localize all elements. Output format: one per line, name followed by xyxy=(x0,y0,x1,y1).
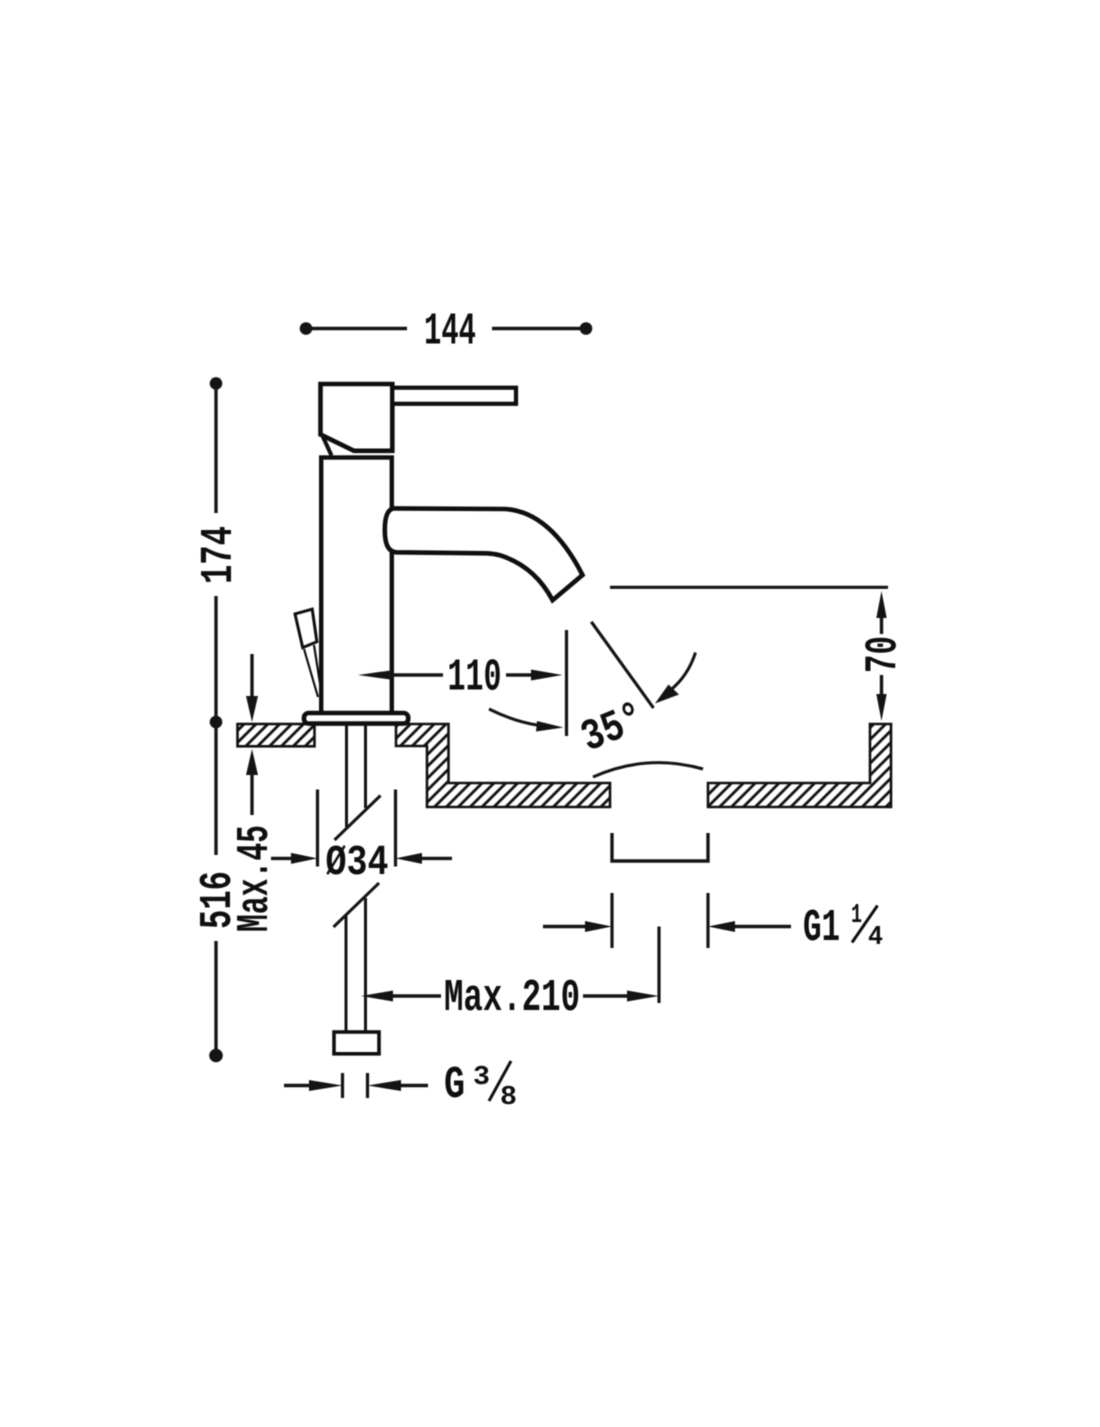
svg-text:110: 110 xyxy=(448,653,502,704)
svg-text:Max.210: Max.210 xyxy=(444,973,580,1024)
svg-text:G: G xyxy=(444,1060,465,1111)
svg-text:1: 1 xyxy=(851,901,862,931)
svg-text:35°: 35° xyxy=(574,693,651,763)
svg-text:70: 70 xyxy=(859,636,910,673)
svg-text:3: 3 xyxy=(473,1063,490,1093)
svg-text:Ø34: Ø34 xyxy=(326,838,389,887)
svg-text:8: 8 xyxy=(500,1083,517,1113)
svg-text:4: 4 xyxy=(868,923,883,953)
svg-text:Max.45: Max.45 xyxy=(230,825,281,932)
svg-text:144: 144 xyxy=(424,307,476,358)
svg-text:G1: G1 xyxy=(803,903,840,954)
svg-text:174: 174 xyxy=(194,526,245,584)
